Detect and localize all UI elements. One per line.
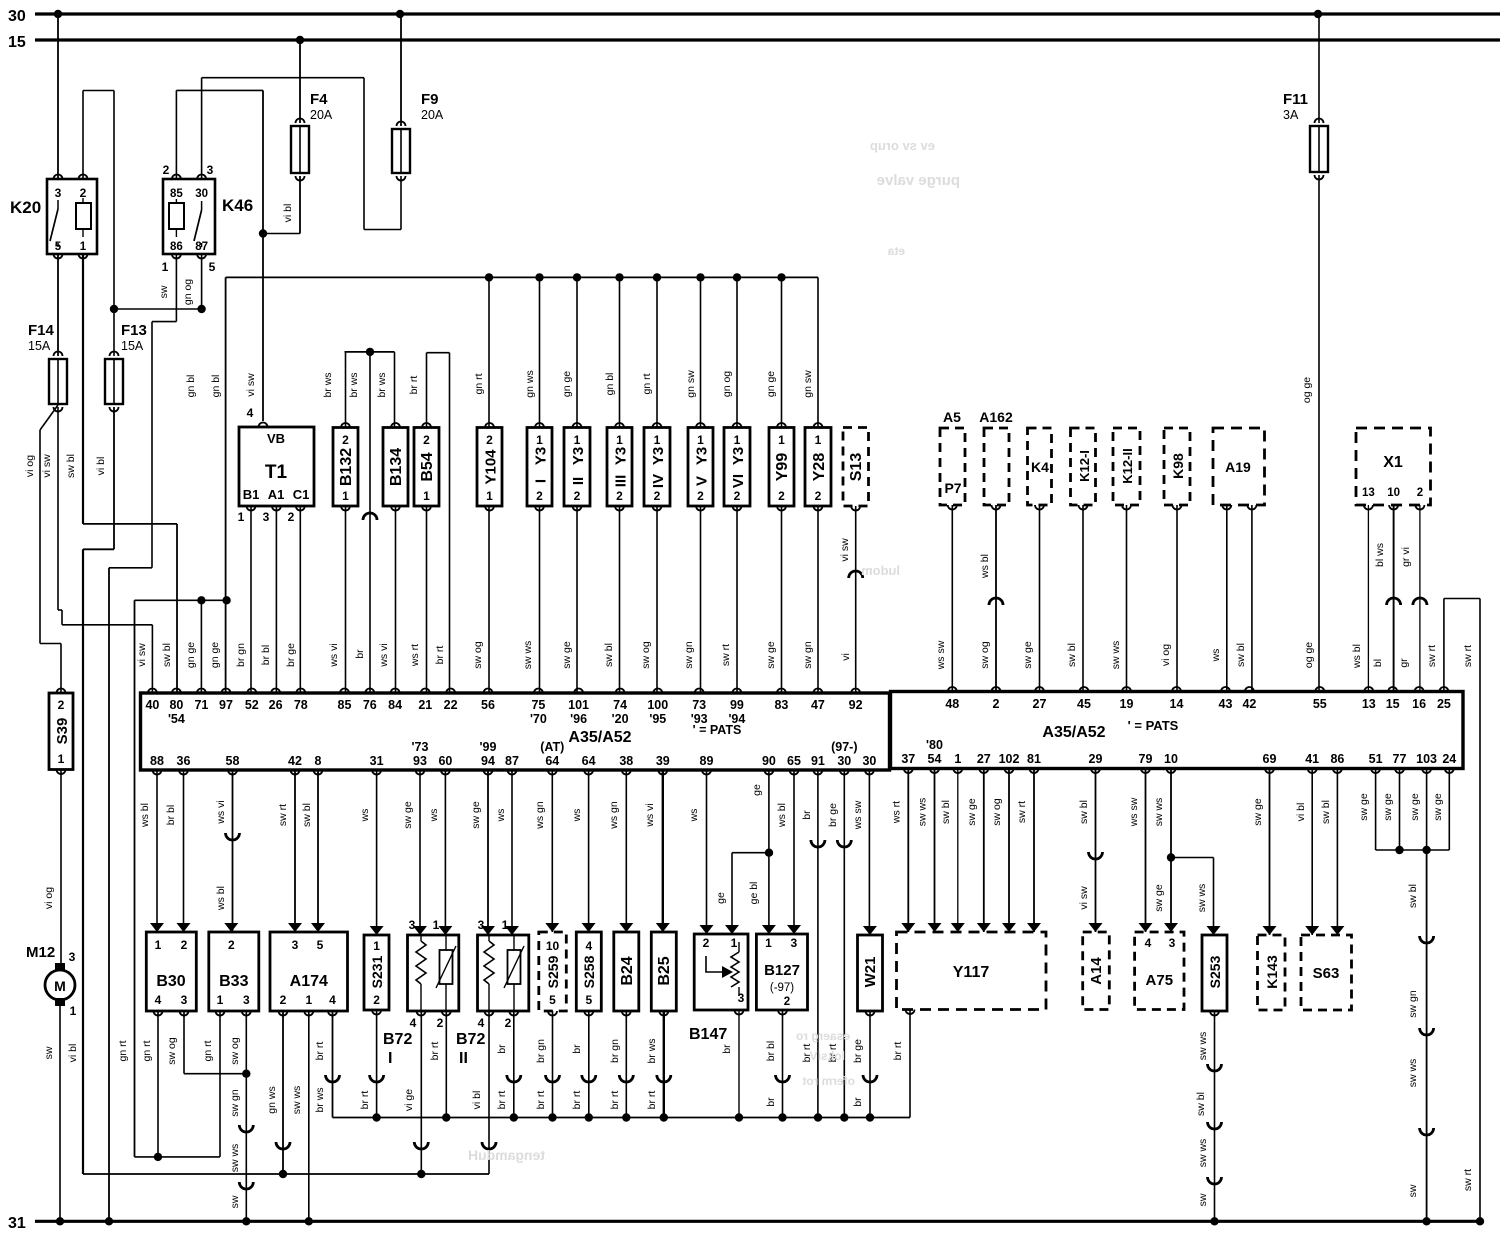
- wire bus to Y3-IV: [653, 273, 661, 281]
- svg-text:30: 30: [8, 8, 26, 25]
- svg-text:'96: '96: [570, 712, 587, 726]
- svg-text:sw og: sw og: [472, 641, 484, 669]
- wire pin103: [1426, 769, 1428, 851]
- wire K20.5 to F14: [57, 254, 59, 356]
- wire B30.4: [157, 1011, 159, 1157]
- svg-text:3A: 3A: [1283, 108, 1299, 122]
- svg-text:ws vi: ws vi: [215, 800, 227, 824]
- ECU left top pins: [148, 689, 157, 694]
- valve Y3 II: [564, 428, 590, 507]
- wire S231.2 to ground bus: [376, 1010, 378, 1118]
- wire pin60 to B72-I.1: [444, 770, 446, 935]
- relay K46: [163, 179, 215, 254]
- svg-text:K98: K98: [1170, 453, 1186, 479]
- wire ECU pin71 riser: [200, 600, 202, 693]
- svg-text:sw ge: sw ge: [765, 641, 777, 669]
- svg-text:74: 74: [613, 698, 627, 712]
- svg-text:br: br: [721, 1044, 733, 1054]
- wire T1.B1 to pin52: [250, 506, 252, 693]
- svg-text:2: 2: [703, 936, 710, 950]
- wire B72-II.4 to sensor gnd: [488, 1011, 490, 1174]
- svg-text:gn ge: gn ge: [209, 642, 221, 668]
- wire F4 bottom: [299, 176, 301, 234]
- wire K12-II to pin19: [1126, 505, 1128, 692]
- svg-text:2: 2: [815, 489, 822, 503]
- connector X1: [1356, 428, 1431, 505]
- svg-text:99: 99: [730, 698, 744, 712]
- wire K46.2 coil feed from F4: [175, 90, 177, 179]
- svg-text:vi sw: vi sw: [245, 373, 257, 397]
- svg-text:(AT): (AT): [540, 740, 564, 754]
- wire K4 to pin27: [1039, 505, 1041, 692]
- svg-text:1: 1: [574, 433, 581, 447]
- svg-text:48: 48: [945, 697, 959, 711]
- wire A19 to pin43: [1226, 505, 1228, 692]
- svg-text:sw og: sw og: [979, 641, 991, 669]
- svg-text:1: 1: [373, 939, 380, 953]
- valve bottom wires to ECU: [488, 506, 490, 693]
- svg-text:sw og: sw og: [640, 641, 652, 669]
- fuse F11 3A: [1315, 119, 1324, 124]
- svg-text:3: 3: [263, 510, 270, 524]
- svg-text:ws vi: ws vi: [378, 643, 390, 667]
- wire B30.3: [183, 1011, 185, 1074]
- svg-text:52: 52: [245, 698, 259, 712]
- svg-text:sw ws: sw ws: [229, 1144, 241, 1173]
- svg-text:T1: T1: [265, 462, 288, 483]
- svg-text:42: 42: [288, 754, 302, 768]
- wire B24 to ground bus: [625, 1011, 627, 1118]
- svg-text:B33: B33: [219, 973, 248, 990]
- svg-text:purge valve: purge valve: [877, 172, 960, 189]
- wire K46.1 to ground riser: [175, 254, 177, 322]
- svg-text:B134: B134: [388, 448, 405, 486]
- svg-text:71: 71: [194, 698, 208, 712]
- svg-text:2: 2: [536, 489, 543, 503]
- wire pin42 to A174.3: [294, 770, 296, 932]
- svg-text:gn ws: gn ws: [266, 1086, 278, 1113]
- valve Y99: [769, 428, 794, 507]
- svg-text:P7: P7: [944, 480, 961, 496]
- svg-text:br rt: br rt: [429, 1042, 441, 1061]
- svg-text:gn rt: gn rt: [141, 1040, 153, 1061]
- svg-text:'73: '73: [412, 740, 429, 754]
- svg-text:84: 84: [388, 698, 402, 712]
- svg-text:br: br: [496, 1044, 508, 1054]
- svg-text:10: 10: [1164, 752, 1178, 766]
- wire pin10 to A75.3: [1170, 769, 1172, 933]
- svg-text:br: br: [801, 810, 813, 820]
- gn rt link B30.4-B33.1: [135, 1156, 221, 1158]
- svg-text:2: 2: [373, 993, 380, 1007]
- switch S258: [576, 932, 601, 1011]
- wire S253 to bus31: [1214, 1011, 1216, 1221]
- svg-text:2: 2: [616, 489, 623, 503]
- svg-text:91: 91: [811, 754, 825, 768]
- svg-text:42: 42: [1242, 697, 1256, 711]
- svg-text:1: 1: [342, 489, 349, 503]
- svg-text:A19: A19: [1225, 459, 1251, 475]
- svg-text:B1: B1: [243, 487, 260, 502]
- wire B134 bottom to pin84: [395, 506, 397, 693]
- svg-text:sw gn: sw gn: [683, 641, 695, 669]
- wire F9 bottom: [400, 176, 402, 230]
- svg-text:ws: ws: [495, 809, 507, 823]
- svg-text:sw ws: sw ws: [1197, 1032, 1209, 1061]
- relay K20: [47, 179, 97, 254]
- svg-text:31: 31: [370, 754, 384, 768]
- svg-text:3: 3: [69, 950, 76, 964]
- wire pin79 to A75.4: [1145, 769, 1147, 933]
- module A75: [1135, 932, 1184, 1010]
- sensor B24: [614, 932, 639, 1011]
- svg-text:sw bl: sw bl: [1195, 1092, 1207, 1116]
- svg-text:A35/A52: A35/A52: [1042, 724, 1105, 741]
- wire pin87 to B72-II.1: [511, 770, 513, 935]
- svg-text:vi bl: vi bl: [67, 1044, 79, 1063]
- wire bus to Y28: [817, 277, 819, 428]
- svg-text:1: 1: [486, 489, 493, 503]
- svg-text:1: 1: [155, 938, 162, 952]
- svg-text:br gn: br gn: [235, 643, 247, 667]
- svg-text:ws: ws: [1210, 649, 1222, 663]
- svg-text:1: 1: [697, 433, 704, 447]
- svg-text:sw bl: sw bl: [1078, 800, 1090, 824]
- svg-text:sw ge: sw ge: [1382, 793, 1394, 821]
- svg-text:br: br: [571, 1044, 583, 1054]
- wire K12-I to pin45: [1082, 505, 1084, 692]
- svg-text:1: 1: [654, 433, 661, 447]
- svg-text:gn bl: gn bl: [604, 373, 616, 396]
- svg-text:2: 2: [778, 489, 785, 503]
- svg-text:vi og: vi og: [24, 455, 36, 477]
- wire T1.A1 to pin26: [275, 506, 277, 693]
- svg-text:br ws: br ws: [348, 372, 360, 397]
- svg-text:55: 55: [1313, 697, 1327, 711]
- svg-text:ws bl: ws bl: [979, 554, 991, 579]
- svg-text:Y99: Y99: [774, 453, 791, 482]
- wire S258.5 to ground bus: [588, 1011, 590, 1118]
- svg-text:I: I: [533, 479, 550, 483]
- wire A19 to pin42: [1251, 505, 1253, 692]
- svg-text:A14: A14: [1088, 957, 1105, 985]
- svg-text:sw gn: sw gn: [229, 1089, 241, 1117]
- svg-text:gn ge: gn ge: [185, 642, 197, 668]
- svg-text:29: 29: [1089, 752, 1103, 766]
- wire K46.5 gn og: [201, 254, 203, 309]
- wire B127.2 to ground bus: [782, 1010, 784, 1118]
- svg-text:4: 4: [585, 939, 592, 953]
- svg-text:1: 1: [502, 918, 509, 932]
- svg-text:ge: ge: [715, 892, 727, 904]
- wire B147.3 to ground bus: [738, 1010, 740, 1118]
- svg-text:S253: S253: [1207, 955, 1223, 988]
- wires right ECU to Y117: [907, 769, 909, 933]
- svg-text:20A: 20A: [310, 108, 333, 122]
- svg-text:gn og: gn og: [182, 279, 194, 305]
- svg-text:A75: A75: [1146, 972, 1174, 989]
- svg-text:15A: 15A: [28, 339, 51, 353]
- branch pin10 to S253: [1171, 857, 1214, 859]
- wire W21 to ground bus: [869, 1011, 871, 1118]
- module A19: [1213, 428, 1265, 505]
- wire T1.C1 to pin78: [299, 506, 301, 693]
- svg-text:K143: K143: [1264, 955, 1280, 989]
- svg-text:vi sw: vi sw: [1078, 886, 1090, 910]
- svg-text:B25: B25: [656, 956, 673, 985]
- svg-text:sw: sw: [158, 285, 170, 298]
- svg-text:ws: ws: [688, 809, 700, 823]
- svg-text:br rt: br rt: [408, 376, 420, 395]
- svg-text:sw: sw: [229, 1195, 241, 1208]
- sensor B134: [383, 428, 408, 507]
- svg-text:1: 1: [217, 993, 224, 1007]
- svg-text:B30: B30: [156, 973, 185, 990]
- svg-text:sw bl: sw bl: [161, 643, 173, 667]
- svg-text:1: 1: [815, 433, 822, 447]
- svg-text:gn bl: gn bl: [185, 375, 197, 398]
- svg-text:1: 1: [238, 510, 245, 524]
- svg-text:F4: F4: [310, 91, 328, 108]
- wire M12 to bus31: [59, 1003, 61, 1221]
- svg-text:ws sw: ws sw: [852, 800, 864, 830]
- svg-text:gn rt: gn rt: [473, 373, 485, 394]
- svg-text:2: 2: [181, 938, 188, 952]
- wire F13 out vi bl: [113, 407, 115, 549]
- svg-text:2: 2: [486, 433, 493, 447]
- svg-text:69: 69: [1263, 752, 1277, 766]
- wire pin25 jog to right edge: [1443, 599, 1445, 692]
- svg-text:83: 83: [774, 698, 788, 712]
- svg-text:'54: '54: [168, 712, 185, 726]
- svg-text:89: 89: [700, 754, 714, 768]
- svg-text:ws rt: ws rt: [890, 801, 902, 824]
- svg-text:sw ws: sw ws: [291, 1086, 303, 1115]
- svg-text:S258: S258: [581, 955, 597, 988]
- svg-text:vi bl: vi bl: [471, 1091, 483, 1110]
- svg-text:2: 2: [784, 996, 790, 1008]
- svg-text:1: 1: [731, 936, 738, 950]
- svg-text:vi bl: vi bl: [95, 457, 107, 476]
- wire A174.4 to ground bus: [332, 1011, 334, 1118]
- svg-text:sw bl: sw bl: [301, 803, 313, 827]
- wire B72-I.4 to sensor gnd: [420, 1011, 422, 1174]
- svg-text:24: 24: [1442, 752, 1456, 766]
- svg-text:3: 3: [181, 993, 188, 1007]
- svg-text:sw ge: sw ge: [1409, 793, 1421, 821]
- sensor B72-I: [408, 935, 459, 1011]
- sensor ground line: [83, 1173, 489, 1175]
- wire bus to Y99: [777, 273, 785, 281]
- svg-text:1: 1: [80, 241, 87, 253]
- svg-text:3: 3: [738, 991, 745, 1005]
- module A162: [984, 428, 1009, 505]
- svg-text:64: 64: [582, 754, 596, 768]
- svg-text:1: 1: [765, 936, 772, 950]
- svg-text:sw rt: sw rt: [720, 644, 732, 666]
- wire pin41 to S63: [1311, 769, 1313, 936]
- svg-text:vi bl: vi bl: [1295, 803, 1307, 822]
- svg-text:Y3: Y3: [570, 447, 587, 465]
- svg-text:vi og: vi og: [1160, 644, 1172, 666]
- svg-text:'94: '94: [728, 712, 745, 726]
- svg-text:gr: gr: [1398, 658, 1410, 668]
- svg-text:B147: B147: [689, 1026, 727, 1043]
- svg-text:2: 2: [58, 698, 65, 712]
- svg-text:oferm rot: oferm rot: [802, 1074, 855, 1088]
- valve Y28: [805, 428, 831, 507]
- svg-text:vi og: vi og: [43, 887, 55, 909]
- svg-text:37: 37: [901, 752, 915, 766]
- wire pin69 to K143: [1269, 769, 1271, 936]
- svg-text:38: 38: [619, 754, 633, 768]
- svg-text:1: 1: [433, 918, 440, 932]
- wire X1.2 to pin16: [1419, 505, 1421, 692]
- svg-text:1: 1: [734, 433, 741, 447]
- svg-text:41: 41: [1305, 752, 1319, 766]
- svg-text:Y3: Y3: [730, 447, 747, 465]
- svg-text:br: br: [354, 649, 366, 659]
- svg-text:sw og: sw og: [991, 798, 1003, 826]
- wire pin39 to B25: [662, 770, 664, 932]
- svg-text:'70: '70: [530, 712, 547, 726]
- wire pin91 to ground bus: [817, 770, 819, 1118]
- svg-text:III: III: [613, 475, 630, 488]
- svg-text:30: 30: [862, 754, 876, 768]
- valve Y3 I: [527, 428, 552, 507]
- relay K4: [1028, 428, 1052, 505]
- wire pin38 to B24: [625, 770, 627, 932]
- svg-text:Y3: Y3: [694, 447, 711, 465]
- svg-text:vi sw: vi sw: [41, 454, 53, 478]
- svg-text:A5: A5: [943, 409, 961, 425]
- svg-text:5: 5: [585, 993, 592, 1007]
- wire S39 to M12: [60, 770, 62, 967]
- wire bus15 to F4: [299, 40, 301, 123]
- svg-text:gn bl: gn bl: [210, 375, 222, 398]
- svg-text:VB: VB: [267, 431, 285, 446]
- wire pin64 to S258.4: [588, 770, 590, 932]
- svg-text:15: 15: [1386, 697, 1400, 711]
- svg-text:2: 2: [280, 993, 287, 1007]
- svg-text:br rt: br rt: [571, 1091, 583, 1110]
- svg-text:76: 76: [363, 698, 377, 712]
- resistor W21: [858, 935, 883, 1011]
- knock sensor B33: [209, 932, 259, 1011]
- svg-text:eta: eta: [887, 244, 905, 258]
- svg-text:bl ws: bl ws: [1374, 543, 1386, 567]
- gn-rt vertical to B30/B33: [134, 600, 136, 1157]
- svg-text:sw ws: sw ws: [917, 798, 929, 827]
- bus 15: [35, 38, 1500, 41]
- wire bus to Y3-III: [615, 273, 623, 281]
- svg-text:sw ws: sw ws: [1407, 1059, 1419, 1088]
- svg-text:' = PATS: ' = PATS: [1128, 718, 1179, 733]
- svg-text:sw bl: sw bl: [1407, 884, 1419, 908]
- wire F11 to pin55: [1318, 14, 1320, 123]
- svg-text:W21: W21: [862, 957, 879, 988]
- svg-text:sw ge: sw ge: [1252, 798, 1264, 826]
- valve Y3 V: [688, 428, 713, 507]
- svg-text:vi sw: vi sw: [136, 643, 148, 667]
- svg-text:ws bl: ws bl: [215, 886, 227, 911]
- svg-text:86: 86: [170, 241, 183, 253]
- svg-text:56: 56: [481, 698, 495, 712]
- svg-text:86: 86: [1330, 752, 1344, 766]
- svg-text:A162: A162: [979, 409, 1013, 425]
- svg-text:br: br: [852, 1097, 864, 1107]
- svg-text:47: 47: [811, 698, 825, 712]
- wire B132 bottom to pin85: [345, 506, 347, 693]
- module A174: [270, 932, 348, 1011]
- svg-text:30: 30: [837, 754, 851, 768]
- svg-text:br ws: br ws: [376, 372, 388, 397]
- svg-text:87: 87: [505, 754, 519, 768]
- svg-text:81: 81: [1027, 752, 1041, 766]
- switch S253: [1202, 935, 1227, 1011]
- svg-text:ws gn: ws gn: [534, 801, 546, 830]
- svg-text:3: 3: [292, 938, 299, 952]
- svg-text:bl: bl: [1372, 659, 1384, 667]
- svg-text:sw rt: sw rt: [1462, 645, 1474, 667]
- svg-text:II: II: [459, 1050, 468, 1067]
- svg-text:og ge: og ge: [1301, 377, 1313, 403]
- svg-text:31: 31: [8, 1215, 26, 1232]
- svg-text:sw og: sw og: [229, 1037, 241, 1065]
- svg-text:15A: 15A: [121, 339, 144, 353]
- relay K98: [1164, 428, 1190, 505]
- svg-text:gr vi: gr vi: [1400, 547, 1412, 567]
- svg-text:'95: '95: [649, 712, 666, 726]
- svg-text:sw bl: sw bl: [1320, 800, 1332, 824]
- svg-text:br rt: br rt: [434, 646, 446, 665]
- svg-text:21: 21: [418, 698, 432, 712]
- svg-text:5: 5: [55, 241, 62, 253]
- svg-text:sw rt: sw rt: [1016, 801, 1028, 823]
- svg-text:sw ge: sw ge: [470, 801, 482, 829]
- svg-text:ge: ge: [751, 784, 763, 796]
- svg-text:sw ge: sw ge: [1358, 793, 1370, 821]
- wire B132 top: [345, 352, 347, 428]
- svg-text:85: 85: [338, 698, 352, 712]
- pressure reg P7: [940, 428, 965, 505]
- svg-text:4: 4: [1145, 936, 1152, 950]
- svg-text:K12-I: K12-I: [1077, 450, 1092, 482]
- svg-text:S259: S259: [545, 955, 561, 988]
- svg-text:2: 2: [228, 938, 235, 952]
- svg-text:br rt: br rt: [535, 1091, 547, 1110]
- svg-text:51: 51: [1369, 752, 1383, 766]
- svg-text:S63: S63: [1313, 965, 1340, 982]
- svg-text:36: 36: [177, 754, 191, 768]
- svg-text:101: 101: [568, 698, 589, 712]
- gn-rt net horizontal: [135, 599, 227, 601]
- wire pin89 to B147.2: [706, 770, 708, 934]
- svg-text:'20: '20: [612, 712, 629, 726]
- svg-text:Y28: Y28: [811, 453, 828, 482]
- svg-text:19: 19: [1120, 697, 1134, 711]
- svg-text:sw ge: sw ge: [402, 801, 414, 829]
- svg-text:3: 3: [790, 936, 797, 950]
- svg-text:Y3: Y3: [650, 447, 667, 465]
- wire pin51: [1375, 769, 1377, 851]
- svg-text:'99: '99: [480, 740, 497, 754]
- svg-text:B132: B132: [338, 448, 355, 486]
- svg-text:27: 27: [977, 752, 991, 766]
- svg-text:br rt: br rt: [892, 1042, 904, 1061]
- svg-text:vi ge: vi ge: [403, 1089, 415, 1111]
- svg-text:88: 88: [150, 754, 164, 768]
